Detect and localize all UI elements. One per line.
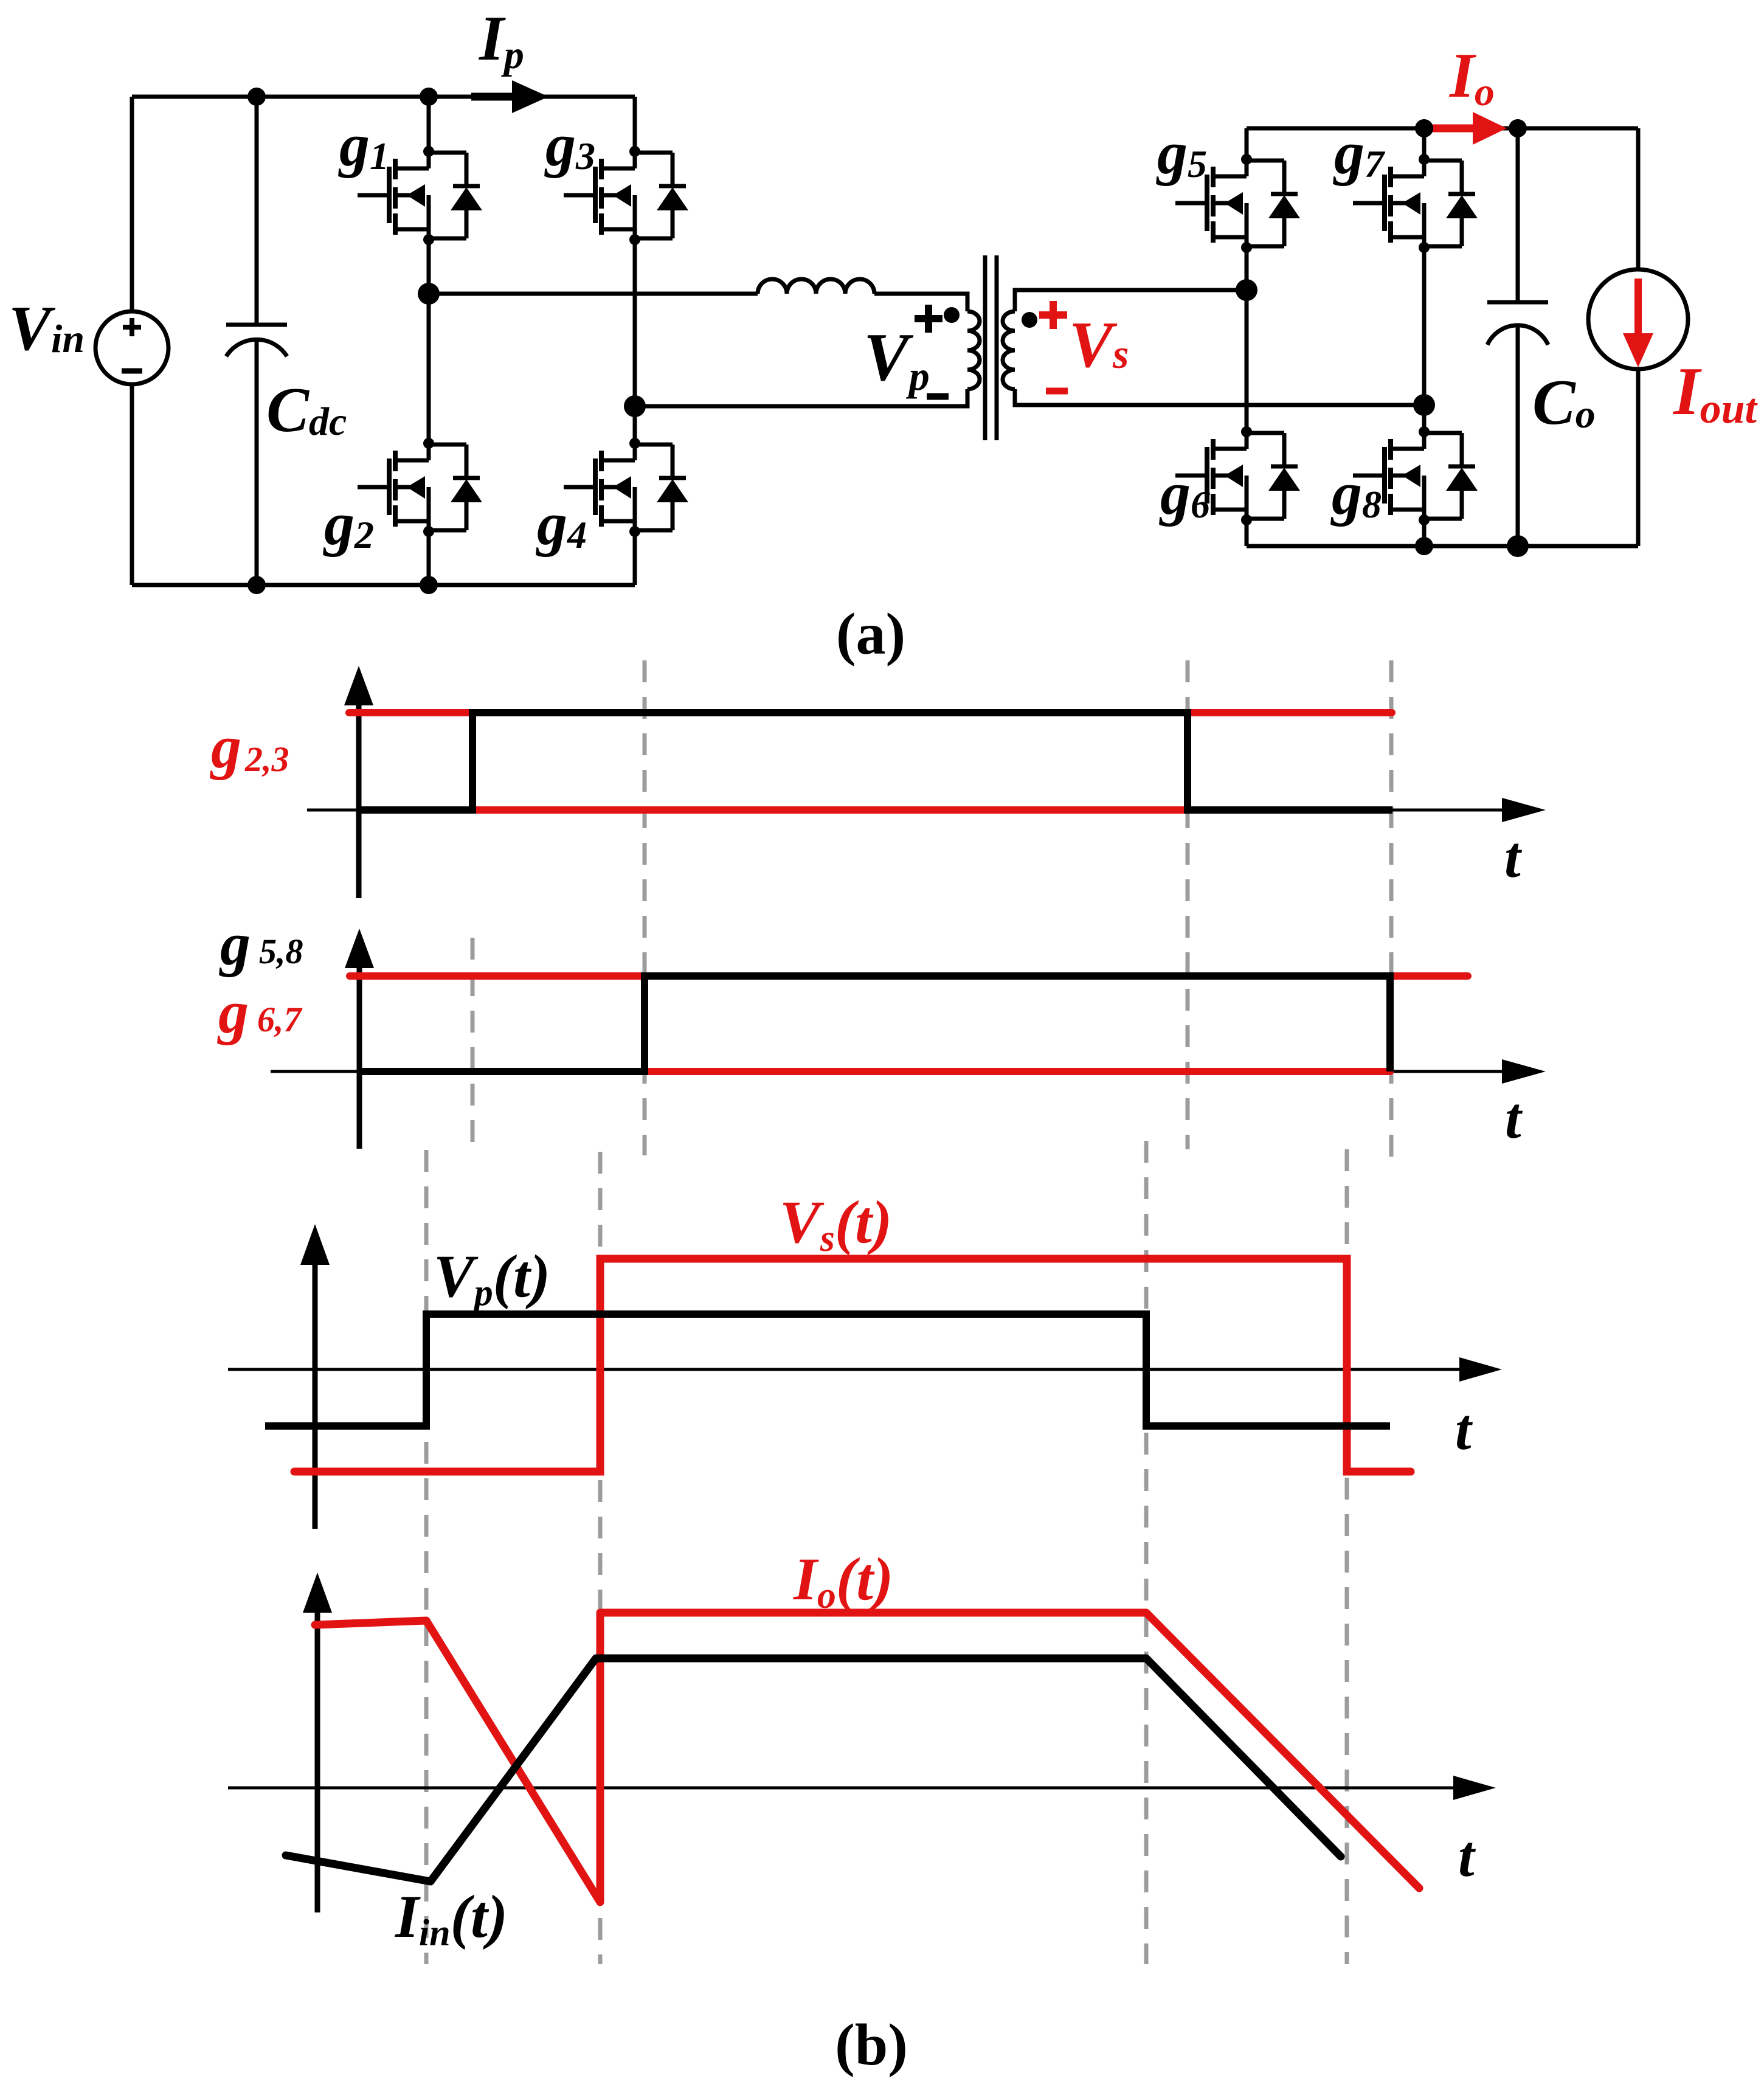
wire g3 source to node B — [633, 240, 637, 406]
wire top rail from Vin to primary bridge — [132, 95, 635, 99]
wire g6 source — [1245, 520, 1249, 546]
dashed marker line t8 (Vs fall) — [1345, 1149, 1349, 1964]
axis t voltage plot — [228, 1368, 1462, 1371]
svg-text:Iout: Iout — [1672, 354, 1759, 432]
svg-text:g2: g2 — [323, 490, 374, 558]
junction secondary bottom / g7-g8 leg — [1413, 394, 1435, 416]
voltage source Vin — [95, 311, 168, 384]
axis y gate plot 2 — [357, 964, 362, 1149]
inductor Lk — [758, 279, 874, 294]
axis y gate plot 1 — [356, 702, 362, 898]
wire to current source top — [1636, 128, 1641, 269]
axis t current plot — [228, 1787, 1456, 1790]
axis y voltage plot — [313, 1262, 318, 1529]
wire node A to inductor — [429, 292, 758, 296]
svg-text:g4: g4 — [536, 490, 587, 558]
junction top rail / g7 drain — [1415, 119, 1433, 137]
wire g1 drain — [427, 97, 431, 151]
svg-text:Io(t): Io(t) — [793, 1545, 893, 1616]
node A junction — [418, 283, 440, 305]
waveform g6,7 (red) — [350, 976, 1468, 1071]
svg-text:Vp(t): Vp(t) — [434, 1242, 550, 1313]
svg-text:g5: g5 — [1156, 119, 1207, 187]
wire bottom rail of secondary bridge — [1247, 544, 1638, 549]
axis y current plot — [315, 1608, 320, 1912]
svg-text:Io: Io — [1448, 40, 1495, 114]
wire g7 source to secondary bottom node — [1422, 247, 1427, 405]
junction top rail / Co — [1509, 119, 1527, 137]
axis t gate plot 2 — [271, 1070, 1505, 1073]
dashed marker line t7 (Vp fall) — [1144, 1141, 1149, 1964]
wire g1 source to node A — [427, 240, 431, 294]
svg-text:g2,3: g2,3 — [210, 713, 289, 781]
waveform g5,8 (black) — [359, 976, 1390, 1071]
minus mark primary — [927, 393, 949, 400]
waveform g1,4 (black) — [359, 713, 1392, 810]
plus mark primary — [915, 305, 943, 333]
svg-text:t: t — [1505, 1085, 1523, 1151]
svg-text:g6,7: g6,7 — [217, 978, 303, 1046]
capacitor Co — [1487, 128, 1548, 546]
wire g2 source — [427, 531, 431, 585]
wire g7 drain — [1422, 128, 1427, 159]
wire g5 drain — [1245, 128, 1249, 159]
svg-text:(b): (b) — [835, 2012, 908, 2078]
wire secondary winding bottom to g7 leg — [1015, 389, 1424, 405]
dashed marker line t4 (g5,8 fall) — [1389, 660, 1394, 1168]
polarity dot secondary — [1022, 312, 1037, 328]
transistor g7 — [1333, 119, 1478, 253]
wire g8 drain — [1422, 405, 1427, 432]
transistor g6 — [1159, 426, 1300, 527]
transistor g2 — [323, 438, 482, 558]
wire g5 source to secondary top node — [1245, 247, 1249, 290]
svg-text:Iin(t): Iin(t) — [395, 1883, 508, 1954]
current arrow Ip — [471, 93, 512, 101]
svg-text:Vs: Vs — [1069, 309, 1129, 381]
svg-text:Co: Co — [1532, 367, 1596, 438]
waveform Io(t) red — [315, 1613, 1419, 1902]
svg-text:g1: g1 — [338, 111, 389, 179]
dashed marker line t6 (Vs rise) — [598, 1152, 603, 1964]
junction Cdc bottom — [247, 576, 266, 594]
waveform Vp(t) black — [265, 1314, 1390, 1426]
junction top rail / g1 drain — [420, 88, 438, 106]
junction g2 source / bottom rail — [420, 576, 438, 594]
svg-text:Vin: Vin — [9, 292, 85, 364]
svg-text:t: t — [1455, 1397, 1473, 1462]
waveform Vs(t) red — [294, 1259, 1411, 1472]
axis t gate plot 1 — [307, 809, 1505, 812]
dashed marker line t5 (Vp rise) — [424, 1150, 429, 1964]
wire inductor to primary winding — [874, 294, 967, 311]
svg-text:t: t — [1504, 825, 1523, 890]
wire g2 drain — [427, 294, 431, 443]
wire current source bottom — [1636, 369, 1641, 546]
svg-text:Vs(t): Vs(t) — [780, 1188, 892, 1259]
dashed marker line t1 (g1,4 rise) — [471, 938, 475, 1143]
plus mark secondary — [1039, 301, 1067, 329]
wire primary winding bottom to node B — [635, 389, 967, 406]
transformer core — [985, 255, 997, 440]
waveform g2,3 (red) — [349, 713, 1392, 810]
wire secondary winding top to g5 leg — [1015, 290, 1247, 311]
svg-text:g8: g8 — [1330, 460, 1382, 527]
svg-text:g5,8: g5,8 — [219, 910, 303, 978]
polarity dot primary — [944, 307, 960, 323]
dashed marker line t3 (g1,4 fall) — [1186, 660, 1190, 1149]
wire Vin minus lead — [130, 384, 134, 585]
svg-text:Ip: Ip — [478, 2, 524, 77]
wire bottom rail of primary bridge — [132, 583, 635, 587]
svg-text:g3: g3 — [544, 111, 595, 179]
junction secondary top / g5-g6 leg — [1236, 279, 1257, 301]
wire g4 drain — [633, 406, 637, 443]
minus mark secondary — [1046, 388, 1068, 395]
waveform Iin(t) black — [286, 1658, 1341, 1881]
junction bottom rail / Co — [1507, 535, 1529, 557]
current arrow Io — [1429, 125, 1473, 133]
dashed marker line t2 (g5,8 rise) — [643, 660, 647, 1155]
node B junction — [624, 395, 646, 417]
wire g8 source — [1422, 520, 1427, 546]
wire g3 drain — [633, 97, 637, 151]
wire g4 source — [633, 531, 637, 585]
transistor g1 — [338, 111, 482, 245]
transistor g3 — [544, 111, 688, 245]
svg-text:Cdc: Cdc — [266, 374, 347, 445]
capacitor Cdc — [226, 97, 287, 585]
svg-text:t: t — [1458, 1824, 1476, 1889]
junction bottom rail / g8 source — [1415, 537, 1433, 555]
svg-text:g6: g6 — [1159, 460, 1210, 527]
wire top rail of secondary bridge — [1247, 126, 1638, 131]
transformer primary winding — [967, 311, 980, 389]
junction Cdc top — [247, 88, 266, 106]
wire g6 drain — [1245, 290, 1249, 432]
transistor g4 — [536, 438, 688, 558]
svg-text:Vp: Vp — [863, 320, 930, 399]
transistor g5 — [1156, 119, 1300, 253]
transistor g8 — [1330, 426, 1478, 527]
wire left vertical (Vin plus lead) — [130, 97, 134, 311]
svg-text:(a): (a) — [836, 601, 905, 667]
transformer secondary winding — [1003, 311, 1015, 389]
current source Iout — [1588, 269, 1688, 369]
